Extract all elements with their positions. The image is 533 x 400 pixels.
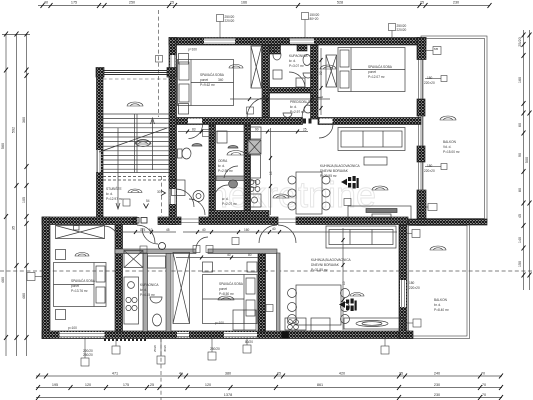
svg-text:250/20: 250/20 (83, 353, 93, 357)
svg-text:w. d.: w. d. (222, 197, 229, 201)
svg-text:M5: M5 (434, 47, 438, 51)
svg-text:DNEVNI BORAVAK: DNEVNI BORAVAK (311, 263, 340, 267)
svg-text:P=2.07 m²: P=2.07 m² (222, 202, 237, 206)
svg-text:kr. d.: kr. d. (289, 59, 296, 63)
svg-text:160: 160 (518, 77, 522, 83)
svg-text:ponet: ponet (200, 78, 208, 82)
svg-text:P=8.40 m²: P=8.40 m² (434, 308, 449, 312)
svg-text:40: 40 (44, 1, 48, 5)
svg-text:220×20: 220×20 (424, 169, 435, 173)
svg-text:230: 230 (434, 393, 440, 397)
svg-text:STUBIŠTE: STUBIŠTE (106, 186, 122, 191)
svg-text:180: 180 (427, 164, 433, 168)
svg-text:90: 90 (255, 128, 259, 132)
svg-text:P=8.50 m²: P=8.50 m² (219, 292, 234, 296)
svg-text:ponet: ponet (71, 284, 79, 288)
svg-text:160: 160 (244, 228, 250, 232)
svg-text:220/20: 220/20 (225, 19, 235, 23)
svg-text:45: 45 (166, 228, 170, 232)
svg-text:230: 230 (434, 383, 440, 387)
svg-text:KUPAONICA: KUPAONICA (140, 283, 159, 287)
svg-text:15: 15 (342, 281, 346, 285)
svg-text:340: 340 (218, 78, 224, 82)
svg-text:kr. d.: kr. d. (218, 164, 225, 168)
svg-text:70: 70 (482, 393, 486, 397)
svg-text:40: 40 (202, 228, 206, 232)
svg-text:220×20: 220×20 (409, 286, 420, 290)
svg-text:P=2.97 m²: P=2.97 m² (290, 110, 305, 114)
svg-text:25: 25 (170, 1, 174, 5)
svg-text:kr. d.: kr. d. (290, 105, 297, 109)
svg-text:240: 240 (434, 371, 440, 375)
svg-text:KUPAONICA: KUPAONICA (289, 54, 308, 58)
svg-text:kr. d.: kr. d. (106, 192, 113, 196)
svg-text:SPAVAĆA SOBA: SPAVAĆA SOBA (71, 278, 96, 283)
svg-text:360: 360 (22, 117, 26, 123)
svg-text:460: 460 (1, 277, 5, 283)
svg-text:420: 420 (339, 371, 345, 375)
svg-text:230: 230 (453, 1, 459, 5)
svg-text:220×20: 220×20 (424, 81, 435, 85)
svg-text:592: 592 (12, 127, 16, 133)
svg-text:SPAVAĆA SOBA: SPAVAĆA SOBA (200, 72, 225, 77)
svg-text:120: 120 (85, 383, 91, 387)
svg-text:1378: 1378 (224, 393, 232, 397)
svg-text:120: 120 (205, 383, 211, 387)
svg-text:P=4.15 m²: P=4.15 m² (140, 293, 155, 297)
svg-text:80/20: 80/20 (245, 340, 253, 344)
svg-text:PREDSOBLJE: PREDSOBLJE (290, 100, 311, 104)
svg-text:BALKON: BALKON (443, 140, 457, 144)
svg-text:P=12.07 m²: P=12.07 m² (368, 75, 385, 79)
svg-text:ponet: ponet (368, 70, 376, 74)
svg-text:250/20: 250/20 (210, 347, 220, 351)
svg-text:150: 150 (518, 261, 522, 267)
svg-text:40: 40 (272, 227, 276, 231)
svg-text:kr. d.: kr. d. (140, 288, 147, 292)
svg-text:P=30.95 m²: P=30.95 m² (320, 174, 337, 178)
svg-text:KUHINJA,BLAGOVAONICA: KUHINJA,BLAGOVAONICA (320, 164, 360, 168)
svg-text:175: 175 (140, 228, 146, 232)
svg-text:83: 83 (192, 128, 196, 132)
svg-text:KUHINJA,BLAGOVAONICA: KUHINJA,BLAGOVAONICA (311, 258, 351, 262)
svg-text:80+20: 80+20 (310, 17, 319, 21)
svg-text:500: 500 (525, 157, 529, 163)
svg-text:p=100: p=100 (215, 321, 224, 325)
svg-text:60: 60 (518, 123, 522, 127)
svg-text:25: 25 (277, 371, 281, 375)
svg-text:P=12.97 m²: P=12.97 m² (106, 197, 123, 201)
svg-text:25/20: 25/20 (518, 37, 522, 47)
svg-text:25: 25 (420, 1, 424, 5)
svg-text:40: 40 (227, 253, 231, 257)
svg-text:471: 471 (112, 371, 118, 375)
svg-text:380: 380 (225, 371, 231, 375)
svg-text:P=15.00 m²: P=15.00 m² (443, 150, 460, 154)
svg-text:P=13.76 m²: P=13.76 m² (71, 289, 88, 293)
svg-text:140: 140 (518, 237, 522, 243)
svg-text:195: 195 (52, 383, 58, 387)
svg-text:220/20: 220/20 (397, 28, 407, 32)
svg-text:25: 25 (150, 383, 154, 387)
svg-text:ODRA: ODRA (218, 159, 228, 163)
svg-text:P=3.07 m²: P=3.07 m² (289, 64, 304, 68)
svg-text:30: 30 (157, 190, 161, 194)
svg-text:166: 166 (241, 1, 247, 5)
svg-text:861: 861 (317, 383, 323, 387)
svg-text:80: 80 (248, 253, 252, 257)
svg-text:p=100: p=100 (68, 326, 77, 330)
svg-text:25: 25 (303, 128, 307, 132)
svg-text:54: 54 (146, 199, 150, 203)
svg-text:175: 175 (123, 383, 129, 387)
svg-text:45/20: 45/20 (163, 345, 167, 352)
svg-text:460: 460 (22, 293, 26, 299)
svg-text:Vd. d.: Vd. d. (443, 145, 451, 149)
svg-text:528: 528 (337, 1, 343, 5)
svg-text:105: 105 (22, 197, 26, 203)
svg-text:45: 45 (518, 214, 522, 218)
svg-text:25/20: 25/20 (153, 345, 157, 352)
svg-text:250: 250 (129, 1, 135, 5)
svg-text:br. d.: br. d. (434, 303, 441, 307)
svg-text:SPAVAĆA SOBA: SPAVAĆA SOBA (368, 64, 393, 69)
svg-text:180: 180 (409, 281, 415, 285)
svg-text:70: 70 (482, 383, 486, 387)
svg-text:P=31.85 m²: P=31.85 m² (311, 268, 328, 272)
svg-text:25: 25 (399, 371, 403, 375)
svg-text:DNEVNI BORAVAK: DNEVNI BORAVAK (320, 169, 349, 173)
svg-text:P=2.98 m²: P=2.98 m² (218, 169, 233, 173)
svg-text:35: 35 (12, 226, 16, 230)
svg-text:80: 80 (518, 188, 522, 192)
svg-text:SPAVAĆA SOBA: SPAVAĆA SOBA (219, 281, 244, 286)
svg-text:BALKON: BALKON (434, 298, 448, 302)
svg-text:70: 70 (481, 371, 485, 375)
svg-text:220/20: 220/20 (83, 349, 93, 353)
svg-text:560: 560 (1, 143, 5, 149)
svg-text:ponet: ponet (219, 287, 227, 291)
svg-text:15: 15 (269, 171, 273, 175)
svg-text:90: 90 (518, 153, 522, 157)
svg-text:180: 180 (427, 76, 433, 80)
svg-text:p=100: p=100 (188, 48, 197, 52)
svg-text:175: 175 (71, 1, 77, 5)
svg-text:P=9.62 m²: P=9.62 m² (200, 83, 215, 87)
